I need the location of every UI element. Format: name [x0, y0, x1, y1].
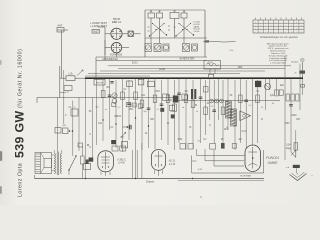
label tube V1 (EBF11) — [112, 17, 122, 24]
wire transformer top — [54, 150, 61, 153]
tube V2 electrodes — [113, 43, 121, 51]
label value 25k — [129, 109, 134, 111]
label value 10k — [141, 95, 146, 97]
scan artifact left 3 — [0, 60, 2, 65]
label value C — [65, 115, 67, 117]
resistor R31 — [138, 104, 142, 108]
wire staircase into eye 2 — [205, 149, 244, 161]
output transformer T2 — [54, 152, 61, 176]
svg-text:553 C: 553 C — [132, 63, 138, 65]
label bandfilter — [180, 58, 195, 61]
svg-text:6,3V: 6,3V — [242, 131, 247, 133]
tube V5 envelope (EM11) — [245, 145, 261, 172]
resistor R2 — [127, 81, 133, 87]
wire tube V2 left — [105, 40, 111, 55]
label bottom mid — [146, 181, 155, 183]
label tube V3 — [117, 158, 126, 164]
label value 70 — [189, 127, 192, 129]
capacitor C18 — [199, 97, 203, 99]
main supply bus — [85, 77, 303, 79]
IF transformer (hatched) T-IF1 — [226, 101, 237, 126]
label value 0,1 — [110, 127, 114, 129]
wire vertical x132.4 — [131, 150, 133, 179]
label small 0,2 — [118, 107, 122, 109]
switch box TAST — [92, 30, 100, 34]
svg-text:L9 60: L9 60 — [194, 31, 200, 33]
resistor R30 — [126, 103, 136, 107]
label value 300 — [150, 119, 155, 121]
svg-text:553c: 553c — [229, 50, 233, 52]
label speaker — [0, 0, 1, 1]
label value 2M — [106, 87, 109, 89]
svg-text:~: ~ — [311, 173, 313, 177]
mains connector block — [286, 165, 300, 169]
label small 50k — [95, 107, 99, 109]
tube V3 pins — [101, 172, 110, 176]
resistor R33 — [204, 87, 209, 93]
eye box bottom — [192, 172, 264, 174]
label value VERB — [159, 69, 166, 71]
svg-text:2,1 W: 2,1 W — [169, 163, 176, 166]
wire harness y76 — [85, 75, 150, 77]
tube V5 internals — [248, 147, 257, 169]
scan artifact left 2 — [0, 186, 2, 194]
resistor R7 — [101, 91, 105, 98]
resistor bank R22 — [286, 94, 299, 101]
wire vertical x116 — [115, 80, 117, 148]
capacitor C12 (electrolytic pair) — [191, 89, 196, 99]
wire vertical x240.3 — [239, 78, 241, 143]
label small 4k — [272, 103, 275, 105]
coil L1 box — [148, 11, 155, 18]
band switch S2b arm — [178, 23, 194, 36]
resistor R10 — [140, 100, 144, 108]
resistor R5 (dark) — [173, 96, 179, 103]
label value ZF2 — [224, 129, 229, 131]
resistor R25 mid-left — [71, 106, 78, 116]
label FUNCOJ UMHE — [266, 156, 279, 165]
label small 30p — [143, 111, 147, 113]
switch position table — [253, 18, 304, 34]
label netz — [311, 173, 313, 177]
wire harness y73.6 — [88, 73, 240, 75]
label small W — [261, 107, 263, 109]
svg-text:0,5M: 0,5M — [154, 91, 159, 93]
svg-text:TAST: TAST — [93, 31, 99, 34]
tube V4 pins — [155, 170, 163, 176]
capacitor C22 — [289, 105, 293, 107]
svg-text:GEH: GEH — [208, 63, 213, 65]
label under tube V2 — [110, 54, 123, 57]
label value 0,1 — [68, 107, 72, 109]
wire harness y71 — [100, 70, 265, 72]
wire vertical x285 — [284, 56, 286, 160]
wire vertical x168 — [167, 78, 169, 145]
diagonal arrow mark — [121, 132, 126, 137]
resistor R15 — [191, 100, 195, 108]
wire vertical x142 — [141, 80, 143, 150]
svg-text:EBF 11: EBF 11 — [112, 20, 122, 24]
label value R — [261, 119, 263, 121]
label value 0,1 — [203, 139, 207, 141]
svg-text:1,2k: 1,2k — [68, 73, 73, 76]
tube V2 envelope — [111, 42, 121, 52]
label value 2k — [145, 133, 148, 135]
bottom chassis bus — [35, 179, 265, 181]
svg-text:VERB: VERB — [159, 69, 166, 71]
wire oscillator lead right — [203, 40, 236, 42]
svg-text:1W: 1W — [131, 105, 134, 107]
scan artifact dust dot — [200, 196, 202, 198]
capacitor C16 — [160, 104, 164, 106]
resistor R3 — [138, 79, 144, 85]
switch contact dots — [155, 29, 187, 30]
label value 25 — [221, 139, 224, 141]
coil L3 box — [170, 11, 179, 19]
resistor R23 (bottom) — [121, 142, 127, 148]
svg-text:Tr: Tr — [74, 106, 76, 109]
wire ticks coil boxes to rail — [151, 10, 184, 13]
svg-text:FUNC0J: FUNC0J — [266, 156, 279, 160]
IF transformer can (top) — [204, 61, 221, 75]
bottom junction dots — [85, 178, 193, 179]
wire vertical x193 — [192, 80, 194, 149]
svg-text:(für Gerät Nr. 16000): (für Gerät Nr. 16000) — [18, 49, 24, 108]
wire coil L1 down — [150, 18, 152, 43]
wire vertical x137.2 — [136, 150, 138, 179]
svg-text:220V: 220V — [291, 115, 297, 117]
label value 0,5 — [120, 137, 124, 139]
capacitor C10 — [110, 82, 113, 84]
svg-text:BANDFILTER: BANDFILTER — [180, 58, 195, 61]
resistor R14 — [184, 95, 188, 103]
wire chassis drop x37 — [36, 98, 38, 104]
label variometer — [102, 58, 118, 61]
wire fuse to bus — [301, 74, 305, 95]
component cluster x66 — [64, 86, 72, 94]
wire vertical x103 — [102, 80, 104, 141]
wire vertical x179 — [178, 78, 180, 143]
wire vertical x223 — [222, 80, 224, 143]
wire vertical x269.8 — [269, 78, 271, 90]
wire vertical x186 — [185, 78, 187, 150]
wire vertical x209.8 — [209, 78, 211, 120]
resistor R28 — [170, 105, 175, 110]
antenna input wire — [57, 30, 68, 78]
svg-text:Chassis: Chassis — [146, 181, 155, 183]
resistor R16 — [204, 107, 208, 115]
mains plug chevron — [290, 172, 307, 180]
label small 5p — [196, 111, 199, 113]
component cluster x66 part2 — [55, 125, 73, 134]
band switch S2a arm — [175, 23, 191, 37]
trimmer capacitor at V1 output — [128, 31, 134, 37]
resistor R32 (field coil) — [81, 146, 89, 179]
capacitor C17 — [177, 93, 181, 95]
wire vertical x235 — [234, 80, 236, 150]
label value 1M — [238, 139, 241, 141]
label in box — [198, 169, 203, 171]
chassis bus right — [176, 100, 280, 102]
capacitor C15 — [147, 108, 151, 110]
resistor R6 — [182, 94, 187, 99]
wire vertical x252.3 — [251, 78, 253, 146]
wire vertical x72.8 — [72, 101, 74, 147]
wire vertical x57.3 — [56, 98, 58, 152]
wire vertical x246.2 — [245, 80, 247, 149]
label value 150 — [296, 119, 301, 121]
title text 539 GW (rotated, bold) — [13, 110, 27, 158]
wire vertical x161.5 — [161, 80, 163, 140]
coil L10 box — [94, 80, 105, 86]
label small 1W — [131, 105, 134, 107]
resistor R26 — [112, 146, 118, 151]
coil L2 box — [157, 11, 163, 18]
svg-text:UMHE: UMHE — [268, 161, 279, 165]
trimmer capacitors row — [210, 99, 224, 103]
label value ABS — [238, 66, 243, 69]
electrolytic capacitor C21 — [265, 84, 271, 90]
label value 553 C — [132, 63, 138, 65]
capacitor C25 (dark) — [160, 108, 164, 112]
wire staircase into eye 3 — [214, 150, 244, 166]
wire harness y68.4 — [118, 67, 285, 69]
wire coil L2 down — [159, 18, 161, 43]
junction tick left — [59, 91, 66, 93]
label value 125V — [284, 123, 290, 125]
capacitor C19 — [212, 110, 216, 112]
label value WID — [178, 139, 183, 141]
resistor R17 — [221, 107, 225, 115]
resistor R13 — [173, 104, 177, 112]
capacitor C14 — [127, 103, 131, 105]
variable capacitor C1 (gang, left) — [145, 44, 152, 52]
label Skalenlampe — [291, 62, 299, 64]
tube V3 internals — [101, 152, 110, 170]
wire tube V1 left — [105, 33, 111, 35]
junction dots mid — [102, 117, 149, 126]
AGC arrow capacitor — [123, 125, 132, 130]
label value 5 — [89, 134, 91, 136]
component small box bottom — [84, 164, 91, 170]
svg-text:x = Kontakt offen: x = Kontakt offen — [270, 62, 287, 65]
svg-text:4µF: 4µF — [270, 95, 275, 97]
label value G — [209, 125, 211, 127]
wire switch block top — [145, 9, 205, 11]
capacitor C20 — [244, 100, 248, 102]
label value ZF — [230, 95, 233, 97]
wire mains drop 1 — [291, 143, 296, 158]
tuning indicator triangle — [240, 111, 251, 121]
capacitor C13 — [108, 95, 111, 97]
resistor R24 (mains dropper) — [294, 143, 298, 150]
padder capacitor C3 — [163, 44, 169, 51]
resistor R19 — [256, 95, 260, 103]
wire vertical x85.5 — [85, 78, 87, 178]
wire vertical x155 — [154, 78, 156, 149]
wire vertical x205.5 — [205, 80, 207, 135]
resistor R9 — [134, 92, 138, 100]
bus connector jack — [209, 74, 214, 78]
wire bottom of switch block — [96, 56, 207, 58]
eye box right edge — [263, 150, 265, 173]
bus junction dots — [95, 77, 286, 79]
svg-text:ZF2: ZF2 — [224, 129, 229, 131]
svg-text:WID: WID — [178, 139, 183, 141]
label under table — [260, 36, 299, 39]
label small lead — [229, 50, 233, 52]
variable capacitor C2 (gang) — [154, 44, 161, 52]
svg-text:VORKREIS: VORKREIS — [110, 54, 123, 57]
svg-text:VARIOMETER: VARIOMETER — [102, 58, 118, 61]
resistor R11 — [153, 95, 157, 103]
wire vertical x295.8 — [295, 130, 297, 158]
capacitor C26 (dark) — [171, 114, 175, 118]
svg-text:ABS: ABS — [238, 66, 243, 69]
component marks above transformer — [78, 143, 92, 149]
resistor R27 — [120, 146, 126, 151]
svg-text:Lorenz Opta: Lorenz Opta — [18, 163, 24, 197]
label value 0,5M — [154, 91, 159, 93]
wire tube V2 right — [117, 48, 130, 57]
padder capacitor C5 — [192, 44, 198, 51]
wire vertical x300 — [299, 64, 301, 111]
svg-text:SICHTBAR: SICHTBAR — [240, 175, 251, 178]
wire connector down — [296, 168, 298, 174]
label value 30 — [207, 103, 210, 105]
label mains resistor — [286, 144, 292, 150]
wire coil L3 down — [174, 19, 176, 39]
label small 0,5 — [249, 105, 253, 107]
tube V1 electrodes — [112, 29, 121, 38]
label value 0,1 — [256, 91, 260, 93]
label value 1M — [184, 91, 187, 93]
resistor R18 — [239, 95, 243, 103]
component row near box — [180, 141, 201, 150]
wire vertical x218.6 — [218, 78, 220, 120]
svg-text:1M: 1M — [184, 91, 187, 93]
label value GEH — [208, 63, 213, 65]
wire vertical x141.9 — [141, 143, 143, 179]
tube V1 envelope — [111, 28, 122, 39]
wire harness y65.8 — [108, 65, 291, 67]
label small ab — [182, 107, 185, 109]
wire mid horizontal under switches — [145, 37, 207, 39]
diagonal arrow near input — [77, 70, 83, 76]
svg-text:2M: 2M — [106, 87, 109, 89]
label value 1k — [167, 123, 170, 125]
label coil values stack — [193, 22, 200, 34]
wire cord twist — [291, 150, 296, 157]
antenna coupling capacitor — [57, 24, 64, 33]
wire tube V1 right — [122, 33, 128, 35]
wire vertical x257.5 — [257, 80, 259, 143]
label value 8µF — [280, 85, 285, 87]
label value 50 — [89, 111, 92, 113]
resistor R20 — [275, 90, 279, 96]
wire vertical x291 — [290, 78, 292, 143]
label value 50k — [168, 100, 173, 102]
label value 6,3V — [242, 131, 247, 133]
label Kurz/Lang switch rows — [90, 21, 107, 28]
label value 4µF — [270, 95, 275, 97]
wire vertical x109.5 — [109, 78, 111, 130]
wire trimmer to switch block — [134, 33, 141, 35]
band switch S1b arm — [152, 23, 167, 36]
label small 0,1 — [157, 109, 161, 111]
svg-text:NF DR: NF DR — [96, 83, 103, 85]
tube V3 envelope (EL11) — [98, 151, 114, 172]
svg-text:W: W — [261, 107, 263, 109]
label value 0,1 — [123, 89, 127, 91]
wire switch block right rail — [204, 10, 206, 57]
svg-text:ANT: ANT — [57, 24, 63, 28]
svg-text:träge: träge — [286, 147, 292, 150]
title text Lorenz Opta (rotated) — [18, 163, 24, 197]
resistor R12 — [166, 95, 170, 103]
bottom bus left end — [34, 175, 36, 179]
resistor R1 (antenna series) — [66, 73, 75, 81]
wire vertical x174.5 — [174, 80, 176, 150]
resistor R8 — [121, 92, 125, 100]
wire lamp down — [302, 62, 304, 70]
label small 2k — [170, 111, 173, 113]
svg-text:G: G — [209, 125, 211, 127]
wire vertical x96.5 — [96, 78, 98, 145]
label value 100 — [98, 123, 103, 125]
label value 220V — [291, 115, 297, 117]
wire staircase into eye 1 — [197, 149, 246, 156]
wire from switch box down — [98, 27, 105, 60]
svg-text:Skalenl.: Skalenl. — [291, 62, 299, 64]
trimmer capacitor pair — [112, 93, 117, 104]
svg-text:0,5A: 0,5A — [286, 144, 291, 147]
label under box — [240, 175, 251, 178]
fuse Si1 — [295, 71, 305, 75]
switch field contact dashes — [148, 26, 197, 31]
tube V4 internals — [155, 151, 163, 168]
svg-text:8µF: 8µF — [280, 85, 285, 87]
wire bottom of switch block 2 — [96, 60, 207, 62]
chassis bus left — [37, 97, 176, 99]
label small ZF — [211, 106, 214, 108]
wire coil L4 down — [183, 18, 185, 43]
wire vertical x228 — [227, 78, 229, 130]
wire switch block left rail — [144, 10, 146, 57]
capacitor C23 (cathode) — [89, 158, 94, 162]
wire vertical x122.5 — [122, 78, 124, 152]
svg-text:539 GW: 539 GW — [13, 110, 27, 158]
label value EBF11 — [115, 116, 123, 118]
wire vertical x79 — [78, 98, 80, 152]
scan artifact left 1 — [0, 151, 2, 161]
legend text block — [267, 42, 289, 64]
wire vertical x200.5 — [200, 78, 202, 143]
components near eye — [210, 143, 237, 149]
resistor R4 — [147, 81, 154, 87]
resistor R29 — [112, 103, 116, 107]
wire vertical x214.2 — [213, 80, 215, 143]
svg-text:1M: 1M — [238, 139, 241, 141]
wire left drop x96 — [95, 57, 97, 78]
label small B — [226, 127, 228, 129]
table cell marks — [255, 22, 302, 34]
svg-text:GR: GR — [62, 125, 66, 127]
wire vertical x135.5 — [135, 78, 137, 178]
svg-text:Schalterstellungen von vorn ge: Schalterstellungen von vorn gesehen — [260, 36, 299, 39]
svg-text:125V: 125V — [284, 123, 290, 125]
resistor R21 — [279, 90, 283, 95]
